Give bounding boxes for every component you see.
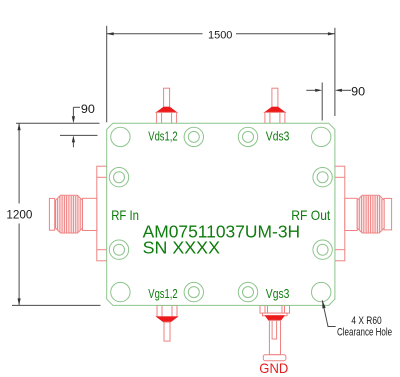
- svg-text:GND: GND: [259, 360, 288, 376]
- svg-text:SN XXXX: SN XXXX: [143, 238, 221, 258]
- svg-text:1200: 1200: [6, 207, 32, 221]
- svg-text:RF In: RF In: [111, 207, 139, 223]
- svg-text:Clearance Hole: Clearance Hole: [337, 327, 392, 339]
- svg-text:90: 90: [81, 102, 95, 116]
- svg-text:Vds1,2: Vds1,2: [148, 129, 177, 144]
- svg-text:Vgs1,2: Vgs1,2: [148, 286, 177, 301]
- svg-text:1500: 1500: [208, 30, 232, 42]
- svg-text:90: 90: [351, 84, 365, 98]
- svg-text:4 X R60: 4 X R60: [351, 315, 381, 327]
- svg-text:Vgs3: Vgs3: [266, 286, 290, 301]
- svg-text:Vds3: Vds3: [266, 129, 290, 144]
